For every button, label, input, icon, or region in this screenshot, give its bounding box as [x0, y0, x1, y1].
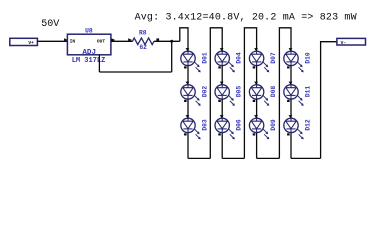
pin terminal square on R8 right pin — [156, 38, 159, 41]
svg-text:IN: IN — [70, 38, 76, 44]
svg-text:Avg: 3.4x12=40.8V, 20.2 mA =>: Avg: 3.4x12=40.8V, 20.2 mA => 823 mW — [135, 12, 357, 23]
pin arrow out of OUT pin — [111, 38, 115, 41]
wire ADJ feedback horizontal run — [99, 71, 171, 73]
wire series link string 1 to string 2 — [210, 28, 222, 159]
svg-text:62: 62 — [139, 44, 147, 51]
wire feed up-and-over into LED column 1 — [180, 28, 188, 51]
svg-text:OUT: OUT — [97, 38, 106, 44]
LED D05 — [215, 66, 235, 106]
wire bottom rail of string 4 — [291, 157, 321, 159]
LED D02 — [181, 66, 201, 106]
wire V+ to U8 IN — [37, 40, 67, 42]
wire bottom rail of string 3 — [257, 157, 280, 159]
LED D07 — [249, 48, 269, 72]
svg-text:D08: D08 — [270, 86, 277, 98]
wire U8 OUT to R8 — [111, 40, 133, 42]
svg-text:LM 317LZ: LM 317LZ — [72, 57, 106, 65]
svg-text:D05: D05 — [235, 86, 242, 98]
svg-text:D11: D11 — [304, 86, 311, 98]
svg-text:U8: U8 — [85, 28, 93, 35]
svg-text:ADJ: ADJ — [82, 49, 96, 57]
wire bottom rail of string 2 — [222, 157, 244, 159]
LED D06 — [215, 99, 235, 158]
LED D04 — [215, 48, 235, 72]
svg-text:V-: V- — [341, 40, 347, 46]
svg-text:D02: D02 — [201, 86, 208, 98]
pin arrow into R8 left pin — [128, 38, 132, 41]
LED D12 — [284, 99, 304, 158]
svg-text:D03: D03 — [201, 119, 208, 131]
svg-text:D10: D10 — [304, 52, 311, 64]
wire return to V- port — [321, 42, 337, 159]
svg-text:50V: 50V — [41, 19, 59, 30]
LED D03 — [181, 99, 201, 158]
LED D11 — [284, 66, 304, 106]
svg-text:D06: D06 — [235, 119, 242, 131]
svg-text:D01: D01 — [201, 52, 208, 64]
wire series link string 2 to string 3 — [244, 28, 256, 159]
svg-text:D04: D04 — [235, 52, 242, 64]
svg-text:D12: D12 — [304, 119, 311, 131]
wire ADJ feedback rise to output node — [171, 41, 173, 72]
LED D01 — [181, 48, 201, 72]
junction node ADJ feedback tap — [170, 40, 173, 43]
op-amp/regulator U8 LM317LZ body — [67, 34, 111, 55]
svg-text:D09: D09 — [270, 119, 277, 131]
svg-text:V+: V+ — [28, 40, 34, 46]
svg-text:D07: D07 — [270, 52, 277, 64]
svg-text:R8: R8 — [139, 30, 147, 37]
wire series link string 3 to string 4 — [279, 28, 291, 159]
LED D08 — [249, 66, 269, 106]
resistor R8 zigzag body — [132, 38, 154, 45]
wire R8 right pin to LED feed — [154, 40, 180, 42]
wire bottom rail of string 1 — [188, 157, 210, 159]
port V- (return terminal) — [337, 38, 366, 45]
pin arrow into IN pin of U8 — [64, 38, 68, 41]
port V+ (50V supply terminal) — [10, 38, 38, 45]
wire ADJ pin down from U8 — [98, 55, 100, 72]
LED D10 — [284, 48, 304, 72]
LED D09 — [249, 99, 269, 158]
